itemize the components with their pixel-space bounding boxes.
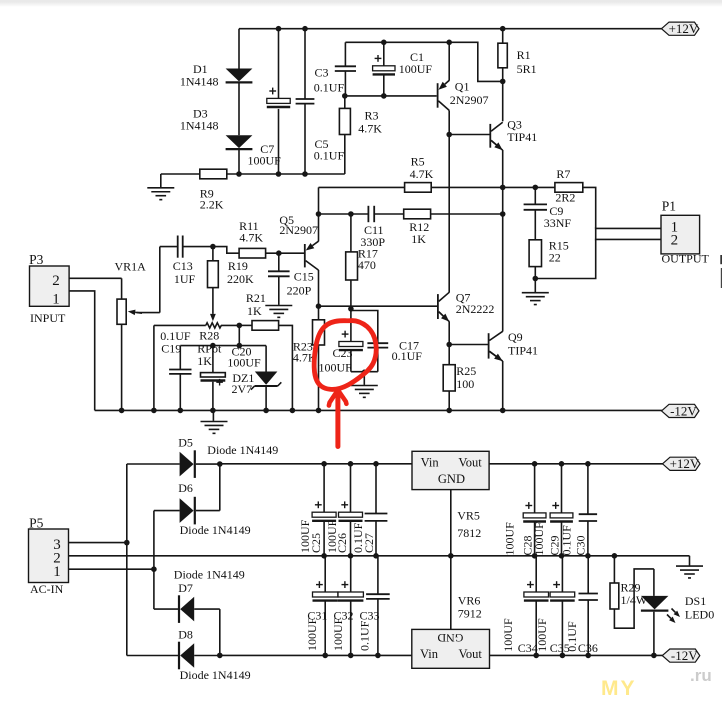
svg-text:0.1UF: 0.1UF (392, 349, 423, 363)
svg-text:2N2907: 2N2907 (279, 223, 318, 237)
svg-text:P1: P1 (662, 199, 676, 214)
svg-text:2V7: 2V7 (232, 382, 253, 396)
svg-text:100UF: 100UF (535, 618, 549, 652)
svg-text:VR1A: VR1A (115, 260, 147, 274)
svg-text:7812: 7812 (457, 526, 481, 540)
svg-text:-12V: -12V (670, 403, 697, 418)
svg-text:-12V: -12V (671, 648, 698, 663)
svg-text:100: 100 (456, 377, 474, 391)
svg-text:C3: C3 (315, 66, 329, 80)
svg-text:2: 2 (671, 232, 679, 248)
svg-text:+12V: +12V (670, 456, 700, 471)
svg-text:100UF: 100UF (331, 617, 345, 651)
svg-text:1: 1 (53, 564, 61, 580)
svg-text:MY: MY (601, 677, 637, 700)
svg-text:0.1UF: 0.1UF (357, 620, 371, 651)
svg-text:C23: C23 (333, 346, 353, 360)
svg-text:D8: D8 (178, 627, 193, 641)
svg-text:7912: 7912 (458, 607, 482, 621)
svg-text:D6: D6 (178, 481, 193, 495)
svg-text:TIP41: TIP41 (507, 130, 537, 144)
svg-text:Diode 1N4149: Diode 1N4149 (207, 443, 278, 457)
svg-text:C30: C30 (574, 535, 588, 555)
svg-text:2.2K: 2.2K (200, 198, 224, 212)
svg-text:R1: R1 (517, 48, 531, 62)
svg-text:100UF: 100UF (305, 617, 319, 651)
svg-text:D7: D7 (178, 581, 193, 595)
svg-text:DS1: DS1 (685, 594, 706, 608)
svg-text:1K: 1K (247, 304, 262, 318)
svg-text:VR5: VR5 (457, 508, 480, 522)
svg-text:100UF: 100UF (227, 356, 261, 370)
svg-text:470: 470 (358, 258, 376, 272)
svg-text:1UF: 1UF (174, 272, 196, 286)
svg-text:4.7K: 4.7K (239, 231, 263, 245)
svg-text:Diode 1N4149: Diode 1N4149 (174, 568, 245, 582)
svg-text:100UF: 100UF (502, 522, 516, 556)
svg-text:0.1UF: 0.1UF (560, 525, 574, 556)
svg-text:0.1UF: 0.1UF (314, 80, 345, 94)
svg-text:AC-IN: AC-IN (30, 582, 64, 596)
svg-text:D5: D5 (178, 435, 193, 449)
svg-text:0.1UF: 0.1UF (565, 621, 579, 652)
svg-text:OUTPUT: OUTPUT (662, 251, 710, 265)
svg-text:22: 22 (549, 250, 561, 264)
svg-text:0.1UF: 0.1UF (314, 149, 345, 163)
svg-text:GND: GND (438, 472, 465, 486)
svg-text:4.7K: 4.7K (358, 122, 382, 136)
svg-text:INPUT: INPUT (30, 311, 66, 325)
svg-text:33NF: 33NF (544, 216, 572, 230)
svg-text:2: 2 (52, 273, 60, 289)
svg-text:Vin: Vin (420, 647, 439, 661)
svg-text:C26: C26 (335, 533, 349, 553)
svg-text:100UF: 100UF (248, 153, 282, 167)
svg-text:100UF: 100UF (399, 62, 433, 76)
svg-text:Q1: Q1 (455, 80, 470, 94)
svg-text:R7: R7 (556, 167, 570, 181)
svg-text:2N2222: 2N2222 (456, 302, 495, 316)
svg-text:220K: 220K (227, 272, 254, 286)
svg-text:P3: P3 (29, 252, 44, 267)
svg-text:1K: 1K (411, 232, 426, 246)
svg-text:R25: R25 (456, 364, 476, 378)
svg-text:C13: C13 (173, 259, 193, 273)
svg-text:2R2: 2R2 (555, 191, 575, 205)
svg-text:100UF: 100UF (532, 522, 546, 556)
svg-text:P5: P5 (29, 515, 44, 530)
svg-text:2N2907: 2N2907 (450, 93, 489, 107)
svg-text:.ru: .ru (690, 666, 712, 685)
svg-text:+12V: +12V (669, 21, 699, 36)
svg-text:100UF: 100UF (501, 618, 515, 652)
svg-text:Vout: Vout (459, 647, 483, 661)
svg-text:C33: C33 (360, 608, 380, 622)
svg-text:5R1: 5R1 (517, 62, 537, 76)
svg-text:C15: C15 (294, 270, 314, 284)
svg-text:Diode 1N4149: Diode 1N4149 (180, 523, 251, 537)
svg-text:100UF: 100UF (319, 361, 353, 375)
svg-text:C19: C19 (161, 342, 181, 356)
svg-text:TIP41: TIP41 (508, 343, 538, 357)
svg-text:4.7K: 4.7K (410, 167, 434, 181)
svg-text:1K: 1K (197, 354, 212, 368)
svg-text:LED0: LED0 (685, 608, 714, 622)
svg-text:Vout: Vout (458, 455, 482, 469)
svg-text:Diode 1N4149: Diode 1N4149 (180, 668, 251, 682)
svg-text:VR6: VR6 (458, 594, 481, 608)
svg-text:1N4148: 1N4148 (180, 74, 219, 88)
svg-text:R19: R19 (228, 259, 248, 273)
svg-text:C25: C25 (309, 533, 323, 553)
svg-text:220P: 220P (287, 283, 312, 297)
svg-text:Q9: Q9 (508, 330, 523, 344)
svg-text:1/4W: 1/4W (621, 593, 648, 607)
svg-text:R28: R28 (199, 329, 219, 343)
svg-text:1: 1 (52, 291, 60, 307)
svg-text:C27: C27 (362, 533, 376, 553)
svg-text:R3: R3 (365, 108, 379, 122)
svg-text:1N4148: 1N4148 (180, 119, 219, 133)
svg-text:GND: GND (437, 631, 463, 645)
svg-text:Vin: Vin (421, 455, 440, 469)
